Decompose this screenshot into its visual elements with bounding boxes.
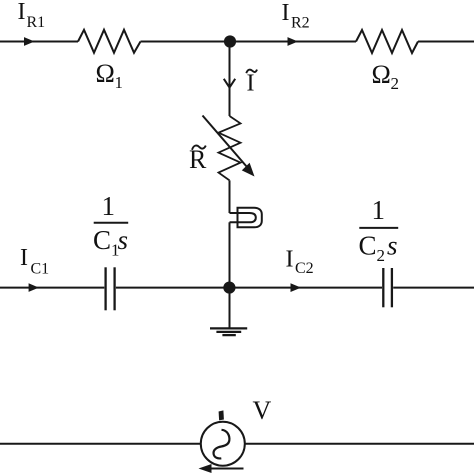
svg-text:1: 1 <box>102 191 116 221</box>
svg-text:V: V <box>253 396 272 425</box>
svg-text:Ω: Ω <box>96 59 115 88</box>
svg-text:s: s <box>118 225 129 255</box>
svg-text:2: 2 <box>391 74 400 93</box>
svg-text:R2: R2 <box>291 15 310 32</box>
svg-text:I: I <box>286 247 294 273</box>
svg-text:1: 1 <box>115 73 124 92</box>
svg-text:I: I <box>18 0 26 25</box>
svg-text:Ω: Ω <box>372 60 391 89</box>
svg-text:I: I <box>247 71 255 97</box>
svg-text:I: I <box>282 0 290 26</box>
svg-text:2: 2 <box>377 246 386 265</box>
svg-text:C1: C1 <box>31 261 50 278</box>
svg-text:I: I <box>20 245 28 271</box>
svg-text:C2: C2 <box>295 260 314 277</box>
svg-text:R1: R1 <box>27 14 46 31</box>
svg-text:s: s <box>387 231 398 261</box>
svg-text:C: C <box>93 225 111 255</box>
svg-text:C: C <box>359 231 377 261</box>
svg-text:1: 1 <box>372 195 386 225</box>
